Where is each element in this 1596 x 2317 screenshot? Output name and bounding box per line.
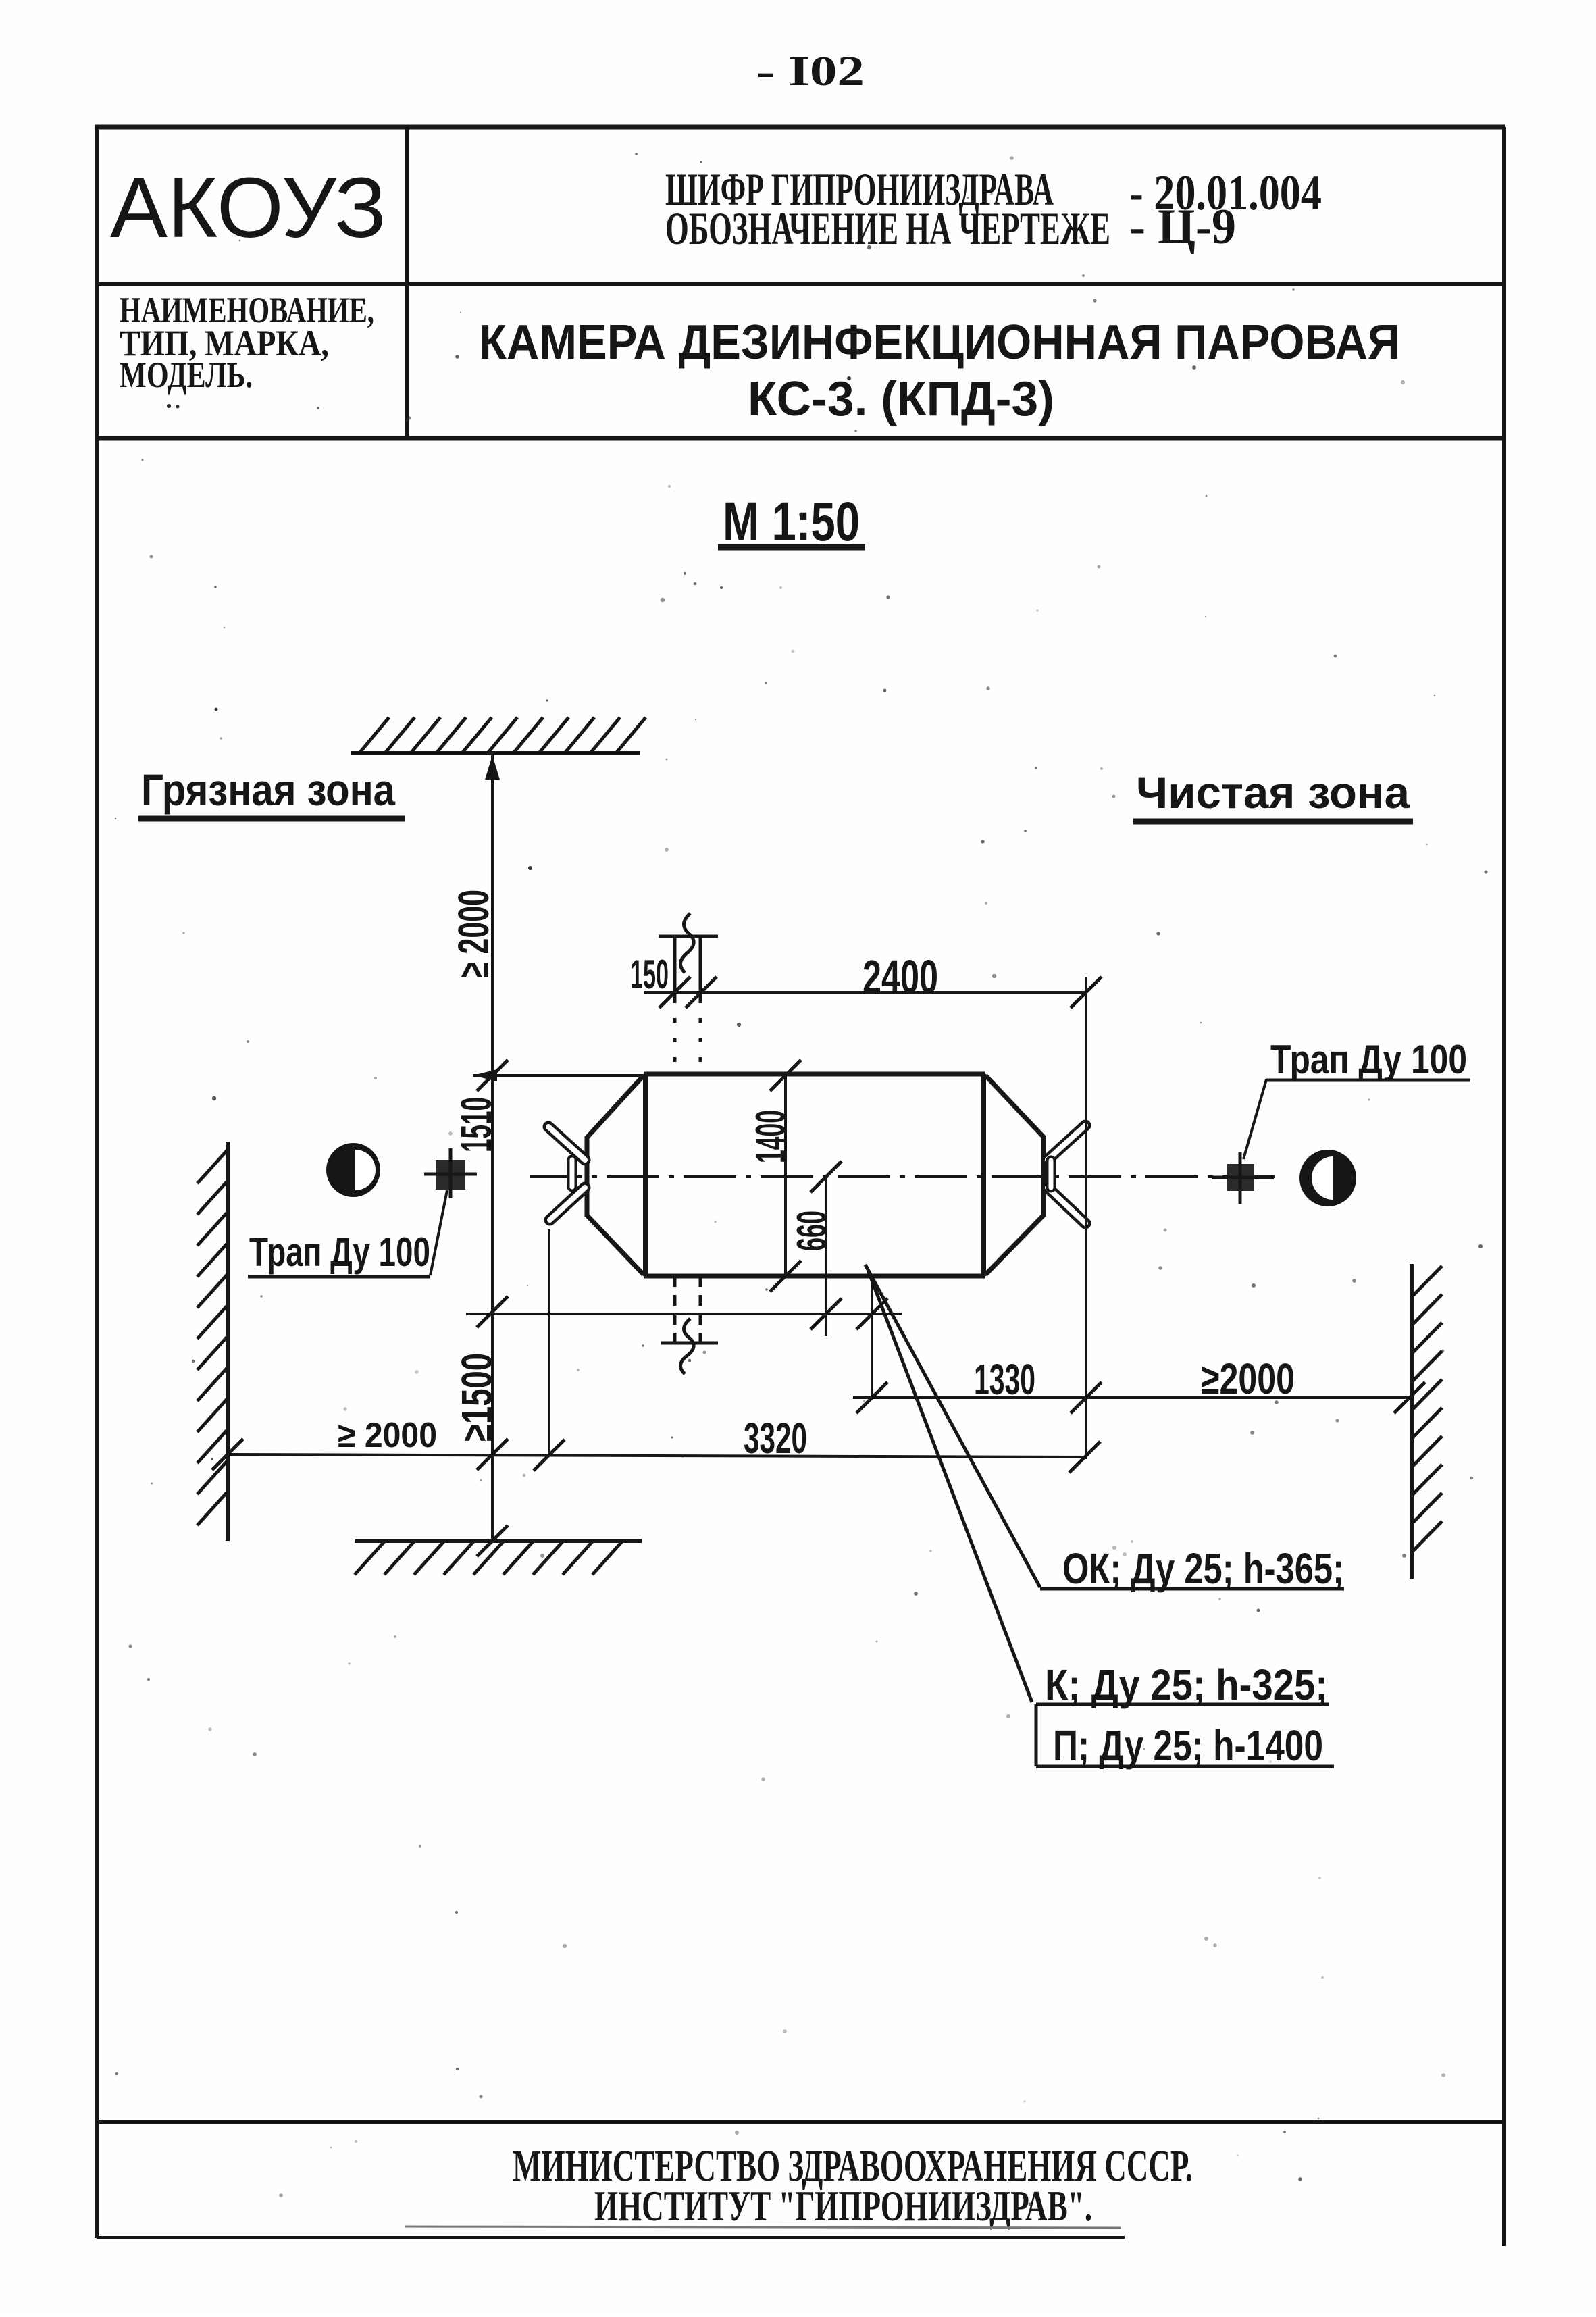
- footer faint underline: [405, 2226, 1121, 2228]
- bottom pipe right: [699, 1276, 702, 1342]
- table left border: [95, 127, 99, 2238]
- left trap label underline: [248, 1275, 430, 1279]
- svg-text:660: 660: [789, 1211, 835, 1251]
- tick: [770, 1261, 801, 1292]
- chamber body top: [644, 1072, 985, 1077]
- svg-text:≥ 2000: ≥ 2000: [449, 890, 498, 978]
- bottom pipe cap: [661, 1342, 718, 1345]
- svg-text:1510: 1510: [452, 1097, 500, 1152]
- zone label dirty underline: [138, 816, 405, 822]
- chamber body left face: [643, 1074, 648, 1276]
- tick: [1071, 977, 1102, 1008]
- svg-text:Трап Ду 100: Трап Ду 100: [249, 1229, 430, 1275]
- table row divider 2: [95, 436, 1505, 441]
- dim line 660: [825, 1177, 827, 1336]
- table bottom border: [97, 2236, 1125, 2239]
- dim line 2400: [644, 991, 1086, 994]
- right trap label underline: [1266, 1079, 1470, 1082]
- top pipe break squiggle: [680, 913, 694, 973]
- dim line 1330 and >=2000 right: [853, 1396, 1410, 1399]
- note box left edge: [1035, 1704, 1038, 1766]
- scan speckle noise: [115, 153, 1488, 2206]
- right door top diagonal: [985, 1075, 1044, 1137]
- note OK underline: [1040, 1587, 1344, 1591]
- svg-text:Чистая зона: Чистая зона: [1136, 767, 1410, 817]
- left handle upper bar: [548, 1127, 585, 1160]
- left handle hub: [567, 1160, 577, 1187]
- left wall line: [226, 1142, 230, 1541]
- table outer top border: [95, 125, 1505, 130]
- right handle upper bar: [1048, 1125, 1085, 1160]
- tick: [770, 1060, 801, 1091]
- svg-text:К; Ду 25; h-325;: К; Ду 25; h-325;: [1045, 1660, 1328, 1709]
- right trap symbol: [1227, 1164, 1254, 1191]
- svg-text:М 1:50: М 1:50: [723, 491, 860, 553]
- right wall line: [1410, 1264, 1414, 1579]
- svg-text:≥1500: ≥1500: [453, 1353, 501, 1442]
- svg-text:Трап Ду 100: Трап Ду 100: [1270, 1037, 1467, 1082]
- note P underline: [1036, 1765, 1334, 1768]
- dim line chamber top extension: [473, 1074, 644, 1077]
- right handle lower bar: [1048, 1188, 1085, 1223]
- right trap leader: [1243, 1079, 1266, 1159]
- tick: [810, 1298, 842, 1329]
- right vertical dimension line: [1085, 977, 1087, 1459]
- svg-text:150: 150: [630, 952, 669, 997]
- svg-text:КАМЕРА ДЕЗИНФЕКЦИОННАЯ ПАРОВ: КАМЕРА ДЕЗИНФЕКЦИОННАЯ ПАРОВАЯ: [479, 315, 1400, 370]
- right door face: [1041, 1136, 1046, 1217]
- tick: [212, 1439, 243, 1470]
- left wall hatching: [197, 1150, 228, 1525]
- leader line OK: [865, 1265, 1040, 1587]
- table bottom strip divider: [95, 2120, 1505, 2124]
- tick: [1394, 1382, 1425, 1413]
- right wall hatching: [1412, 1266, 1442, 1552]
- tick: [1071, 1382, 1102, 1413]
- tick: [477, 1296, 508, 1327]
- left door bottom diagonal: [587, 1215, 644, 1275]
- right floor drain circle: [1299, 1150, 1356, 1206]
- svg-text:АКОУЗ: АКОУЗ: [110, 160, 386, 255]
- left door top diagonal: [587, 1075, 644, 1138]
- svg-text:- Ц-9: - Ц-9: [1129, 199, 1236, 255]
- table right border: [1502, 127, 1506, 2246]
- svg-text:3320: 3320: [744, 1414, 807, 1462]
- leader line K: [868, 1270, 1032, 1702]
- top wall line: [351, 751, 640, 755]
- tick: [659, 977, 690, 1008]
- svg-text:ИНСТИТУТ "ГИПРОНИИЗДРАВ".: ИНСТИТУТ "ГИПРОНИИЗДРАВ".: [594, 2182, 1092, 2230]
- svg-text:≥ 2000: ≥ 2000: [338, 1416, 437, 1455]
- bottom pipe break squiggle: [680, 1319, 694, 1374]
- drain connection vertical line: [871, 1276, 873, 1398]
- svg-text:МОДЕЛЬ.: МОДЕЛЬ.: [120, 355, 253, 395]
- bottom wall hatching: [355, 1541, 623, 1575]
- lower reference dim line: [466, 1313, 902, 1315]
- dim line 1400: [784, 1075, 787, 1276]
- svg-text:≥2000: ≥2000: [1201, 1354, 1295, 1403]
- tick: [477, 1525, 508, 1556]
- bottom pipe left: [673, 1276, 677, 1342]
- right handle hub: [1046, 1161, 1056, 1188]
- tick: [534, 1440, 565, 1471]
- tick: [686, 977, 717, 1008]
- dim line 3320: [228, 1454, 1086, 1457]
- svg-text:2400: 2400: [863, 950, 938, 1003]
- tick: [1069, 1442, 1100, 1473]
- top pipe left: [673, 938, 677, 998]
- table row divider 1: [95, 282, 1505, 286]
- top pipe cap: [659, 935, 718, 938]
- tick: [856, 1298, 887, 1329]
- table vertical divider: [405, 127, 409, 438]
- main left vertical dimension line: [491, 753, 494, 1541]
- svg-text:ОБОЗНАЧЕНИЕ НА ЧЕРТЕЖЕ: ОБОЗНАЧЕНИЕ НА ЧЕРТЕЖЕ: [665, 203, 1110, 254]
- left floor drain circle: [326, 1143, 380, 1197]
- tick: [477, 1439, 508, 1470]
- left trap leader: [430, 1190, 447, 1275]
- svg-text:КС-3. (КПД-3): КС-3. (КПД-3): [748, 372, 1054, 426]
- right door bottom diagonal: [985, 1215, 1044, 1275]
- left door face: [585, 1136, 590, 1217]
- chamber body right face: [981, 1074, 986, 1276]
- arrowhead on chamber-top dim line: [473, 1069, 497, 1081]
- svg-text:П; Ду 25; h-1400: П; Ду 25; h-1400: [1053, 1721, 1323, 1770]
- tick: [856, 1382, 887, 1413]
- zone label clean underline: [1133, 819, 1413, 825]
- left trap symbol: [436, 1160, 465, 1190]
- chamber centerline: [530, 1175, 1275, 1178]
- arrow at wall: [485, 755, 500, 780]
- svg-text:1400: 1400: [748, 1110, 794, 1163]
- svg-text:- I02: - I02: [756, 49, 865, 95]
- tick: [810, 1161, 842, 1192]
- extension line from handle tip: [548, 1229, 550, 1456]
- svg-text:ОК; Ду 25; h-365;: ОК; Ду 25; h-365;: [1062, 1544, 1344, 1593]
- svg-text:1330: 1330: [974, 1355, 1035, 1404]
- chamber body bottom: [644, 1274, 985, 1279]
- left handle lower bar: [550, 1188, 585, 1220]
- note K underline: [1036, 1703, 1329, 1706]
- svg-text:Грязная зона: Грязная зона: [141, 765, 396, 815]
- bottom wall line: [355, 1539, 642, 1543]
- scale label underline: [718, 544, 865, 551]
- top pipe right: [699, 938, 702, 998]
- tick: [477, 1060, 508, 1091]
- top wall hatching: [359, 717, 646, 753]
